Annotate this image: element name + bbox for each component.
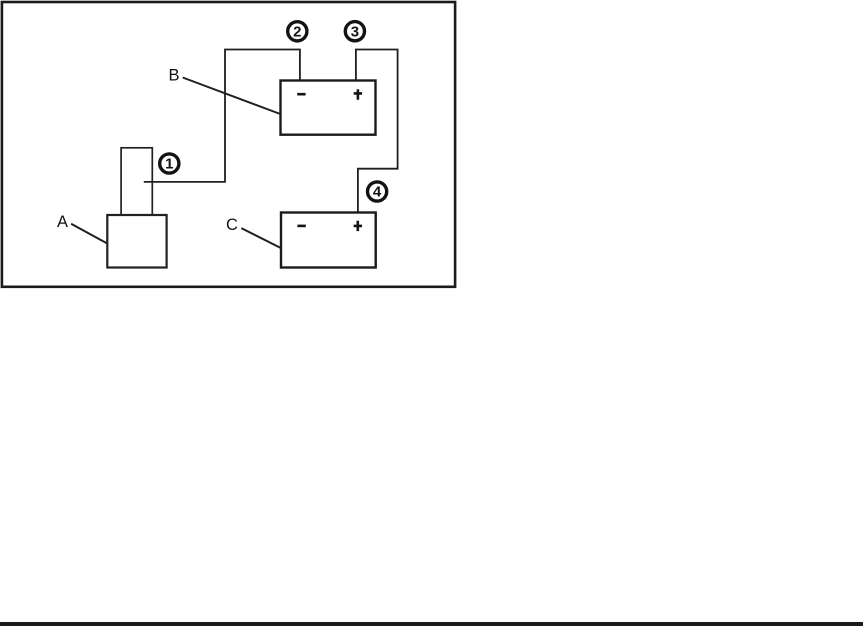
svg-text:4: 4: [373, 184, 382, 201]
wire: positive jumper cable from battery B plus terminal to battery C plus terminal: [356, 50, 398, 213]
battery B (booster battery): [281, 81, 376, 135]
battery C plus terminal label: [354, 221, 362, 231]
callout circle 4: [368, 182, 387, 201]
leader line for label A: [71, 224, 107, 244]
page footer rule: [0, 622, 863, 626]
leader line for label C: [241, 228, 280, 248]
svg-text:A: A: [57, 213, 68, 231]
callout circle 1: [160, 154, 179, 173]
svg-text:B: B: [168, 67, 179, 85]
leader line for label B: [183, 78, 281, 115]
svg-text:2: 2: [293, 23, 301, 40]
component A body (engine block): [107, 215, 166, 268]
battery B minus terminal label: [297, 93, 305, 96]
svg-text:3: 3: [351, 23, 359, 40]
wire: negative jumper cable from bracket to battery B minus terminal: [144, 50, 300, 182]
callout circle 2: [288, 22, 307, 41]
battery C (discharged battery): [281, 213, 376, 268]
frame border of figure: [2, 2, 455, 287]
battery B plus terminal label: [354, 89, 362, 99]
bracket stem on component A: [121, 148, 152, 215]
callout circle 3: [345, 22, 364, 41]
svg-text:C: C: [226, 216, 238, 234]
svg-text:1: 1: [165, 156, 173, 173]
battery C minus terminal label: [297, 225, 305, 228]
